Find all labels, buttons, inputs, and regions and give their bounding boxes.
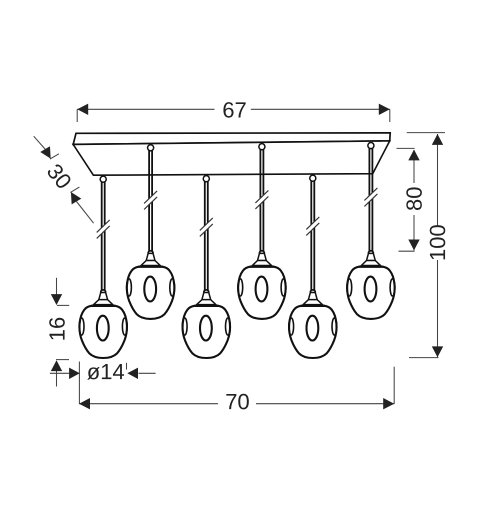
dimension 70 (bottom overall width) (79, 403, 394, 405)
shade 4 (back middle) (238, 251, 286, 319)
dimension 67 (top width of canopy) (77, 109, 390, 122)
shade 1 (front left) (79, 290, 127, 358)
ceiling canopy plate (top band) (73, 133, 390, 145)
cord 5 (front right, x=312.8) (306, 175, 319, 293)
dimension 100 (far right, canopy to lowest shade) (407, 133, 445, 358)
cord 4 (back middle, x=261.9) (255, 144, 268, 254)
dimension ø14 (shade diameter) (50, 362, 394, 404)
shade 2 (back) (127, 251, 175, 319)
dimension 16 (left, shade height) (56, 278, 69, 387)
shade 6 (back right) (347, 251, 395, 319)
cord 3 (front middle, x=206.3) (200, 176, 213, 293)
cord 2 (back, x=150.6) (144, 145, 157, 253)
ceiling canopy plate (bottom face) (73, 141, 390, 175)
cord 6 (back right, x=370.9) (364, 143, 377, 254)
shade 3 (front middle) (182, 290, 230, 358)
shade 5 (front right) (289, 290, 337, 358)
dimension 30 (canopy depth, diagonal) (34, 136, 94, 223)
cord 1 (front left, x=103.2) (97, 176, 110, 293)
dimension 80 (right, canopy to shade top) (397, 148, 415, 251)
